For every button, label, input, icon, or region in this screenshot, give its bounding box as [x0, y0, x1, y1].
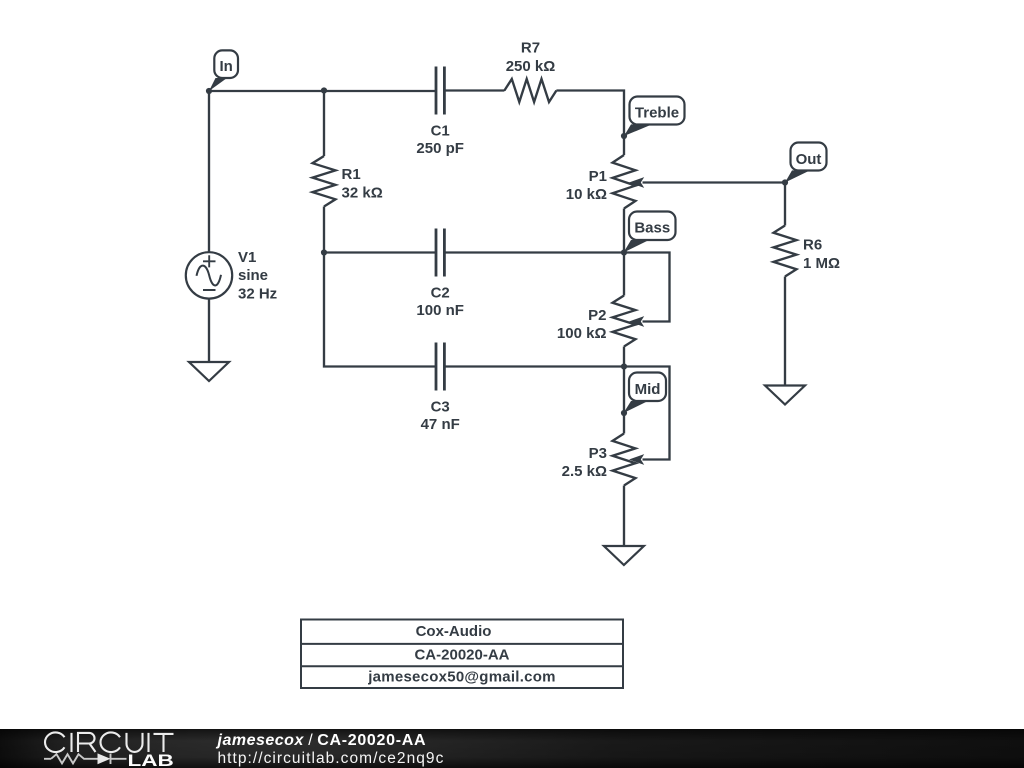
svg-text:R1: R1 [342, 166, 361, 183]
svg-text:jamesecox50@gmail.com: jamesecox50@gmail.com [367, 669, 555, 686]
svg-text:C3: C3 [431, 399, 450, 416]
svg-text:1 MΩ: 1 MΩ [803, 255, 840, 272]
svg-text:Bass: Bass [634, 220, 670, 237]
svg-text:C1: C1 [431, 123, 450, 140]
svg-text:http://circuitlab.com/ce2nq9c: http://circuitlab.com/ce2nq9c [218, 750, 445, 767]
svg-text:100 kΩ: 100 kΩ [557, 325, 607, 342]
svg-text:C2: C2 [431, 285, 450, 302]
svg-text:32 kΩ: 32 kΩ [342, 185, 383, 202]
svg-text:jamesecox / CA-20020-AA: jamesecox / CA-20020-AA [216, 732, 427, 749]
svg-text:250 kΩ: 250 kΩ [506, 58, 556, 75]
svg-text:R6: R6 [803, 237, 822, 254]
svg-text:Mid: Mid [635, 381, 661, 398]
svg-text:32 Hz: 32 Hz [238, 286, 277, 303]
svg-text:CA-20020-AA: CA-20020-AA [414, 647, 509, 664]
svg-text:sine: sine [238, 267, 268, 284]
svg-text:100 nF: 100 nF [416, 302, 464, 319]
svg-text:P2: P2 [588, 307, 606, 324]
svg-text:V1: V1 [238, 249, 256, 266]
svg-text:In: In [219, 58, 232, 75]
svg-text:Treble: Treble [635, 104, 679, 121]
svg-text:250 pF: 250 pF [416, 140, 464, 157]
svg-text:Out: Out [796, 151, 822, 168]
svg-text:10 kΩ: 10 kΩ [566, 186, 607, 203]
svg-text:2.5 kΩ: 2.5 kΩ [562, 463, 607, 480]
svg-text:R7: R7 [521, 40, 540, 57]
svg-text:LAB: LAB [128, 752, 174, 768]
svg-text:P3: P3 [589, 445, 607, 462]
svg-text:P1: P1 [589, 168, 607, 185]
svg-text:47 nF: 47 nF [421, 416, 460, 433]
svg-text:Cox-Audio: Cox-Audio [416, 623, 492, 640]
